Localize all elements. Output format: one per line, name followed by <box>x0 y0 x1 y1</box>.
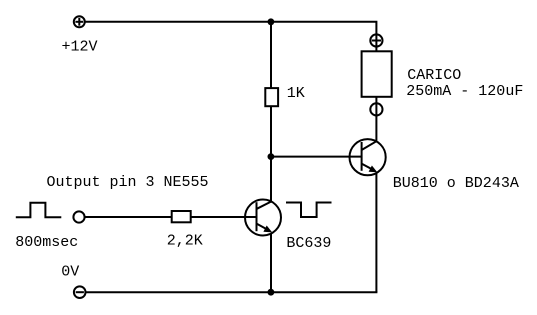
load positive terminal <box>370 34 382 51</box>
svg-text:800msec: 800msec <box>15 234 78 251</box>
svg-text:BC639: BC639 <box>286 235 331 252</box>
wire BC639 emitter to ground rail <box>270 233 272 292</box>
+12V supply terminal <box>74 16 85 27</box>
svg-text:1K: 1K <box>287 85 305 102</box>
svg-text:2,2K: 2,2K <box>167 232 203 249</box>
svg-text:250mA - 120uF: 250mA - 120uF <box>406 83 523 100</box>
wire 2,2K to BC639 base <box>191 216 257 218</box>
wire top rail <box>84 22 376 35</box>
load negative terminal <box>370 97 382 142</box>
svg-text:+12V: +12V <box>62 39 98 56</box>
node middle junction <box>268 153 275 160</box>
svg-text:Output pin 3 NE555: Output pin 3 NE555 <box>47 174 209 191</box>
node top junction <box>268 18 275 25</box>
transistor Q2 BU810 <box>350 139 386 175</box>
svg-text:BU810 o BD243A: BU810 o BD243A <box>393 175 519 192</box>
wire ground rail <box>86 291 378 293</box>
wire input to 2,2K <box>85 216 172 218</box>
0V supply terminal <box>74 286 86 298</box>
node ground junction <box>268 289 275 296</box>
svg-text:0V: 0V <box>61 264 79 281</box>
wire from 1K down to BC639 collector <box>270 106 272 202</box>
resistor 2,2K <box>172 211 191 222</box>
input terminal <box>73 211 84 222</box>
wire base of BU810 <box>271 156 362 158</box>
transistor Q1 BC639 <box>245 200 281 236</box>
load CARICO <box>362 51 392 97</box>
resistor 1K <box>265 88 278 106</box>
wire BU810 emitter to ground rail <box>375 173 377 293</box>
svg-text:CARICO: CARICO <box>407 67 461 84</box>
output inverted pulse waveform <box>286 203 332 218</box>
wire collector branch down from top rail <box>270 22 272 88</box>
label CARICO 250mA - 120uF <box>406 67 523 100</box>
input pulse waveform <box>16 203 62 218</box>
